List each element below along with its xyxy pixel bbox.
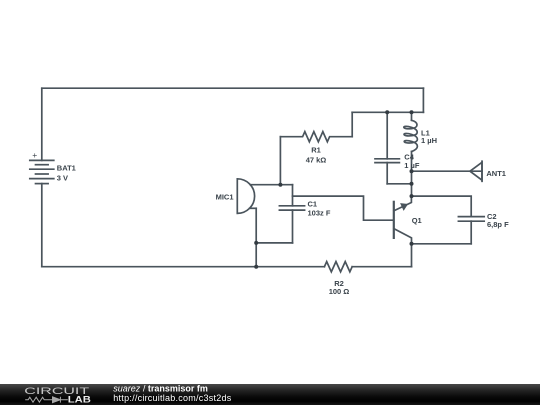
wire top rail: [42, 87, 424, 89]
wire mic bottom drop: [255, 208, 257, 266]
svg-text:100 Ω: 100 Ω: [329, 287, 350, 296]
svg-text:47 kΩ: 47 kΩ: [306, 155, 327, 164]
resistor R2: [324, 262, 352, 272]
logo resistor-diode motif: [25, 397, 68, 403]
wire battery bottom lead: [41, 184, 43, 267]
capacitor C1: [279, 206, 304, 243]
wire base link: [293, 196, 394, 220]
wire emitter riser: [411, 244, 413, 267]
wire second rail: [352, 111, 423, 113]
footer bar: [0, 384, 540, 405]
node collector junction: [410, 194, 414, 198]
wire R1 right riser: [351, 112, 353, 136]
microphone MIC1: [237, 179, 256, 214]
svg-text:+: +: [32, 150, 37, 160]
svg-text:ANT1: ANT1: [486, 169, 506, 178]
wire C2 top link: [412, 196, 472, 217]
svg-text:http://circuitlab.com/c3st2ds: http://circuitlab.com/c3st2ds: [113, 393, 232, 403]
node antenna junction: [410, 169, 414, 173]
svg-text:1 µF: 1 µF: [404, 161, 420, 170]
wire battery top lead: [41, 88, 43, 160]
wire right drop: [422, 88, 424, 112]
wire L1 top lead: [411, 112, 413, 120]
svg-text:103z F: 103z F: [308, 209, 331, 218]
node rail-C4 junction: [385, 110, 389, 114]
svg-text:R1: R1: [311, 146, 321, 155]
svg-text:C1: C1: [308, 200, 318, 209]
svg-text:3 V: 3 V: [57, 174, 68, 183]
capacitor C2: [458, 217, 484, 244]
svg-text:1 µH: 1 µH: [421, 136, 437, 145]
capacitor C4: [375, 159, 399, 184]
wire bottom rail right: [352, 266, 411, 268]
transistor Q1: [394, 196, 412, 244]
node C1-mic junction: [254, 241, 258, 245]
antenna ANT1: [470, 161, 482, 181]
svg-text:MIC1: MIC1: [216, 193, 234, 202]
svg-text:C4: C4: [404, 152, 414, 161]
svg-text:BAT1: BAT1: [57, 164, 76, 173]
node rail-L1 junction: [410, 110, 414, 114]
node emitter junction: [410, 242, 414, 246]
wire C4 top lead: [386, 112, 388, 159]
wire antenna link: [412, 170, 483, 172]
svg-text:LAB: LAB: [68, 394, 91, 404]
wire collector riser: [411, 151, 413, 196]
svg-text:Q1: Q1: [412, 216, 422, 225]
svg-text:6,8p F: 6,8p F: [487, 220, 509, 229]
node C4 junction: [410, 182, 414, 186]
wire C2 bottom link: [412, 243, 472, 245]
inductor L1: [404, 120, 418, 151]
wire C1 bottom link: [256, 242, 292, 244]
node R1-mic junction: [278, 183, 282, 187]
resistor R1: [280, 132, 352, 142]
battery BAT1: [30, 160, 54, 183]
wire C1 top lead: [292, 185, 294, 206]
wire C4 bottom link: [387, 183, 411, 185]
node bottom rail junction: [254, 265, 258, 269]
wire mic top link: [250, 184, 292, 186]
wire R1 left riser: [279, 137, 281, 185]
wire bottom rail left: [42, 266, 325, 268]
